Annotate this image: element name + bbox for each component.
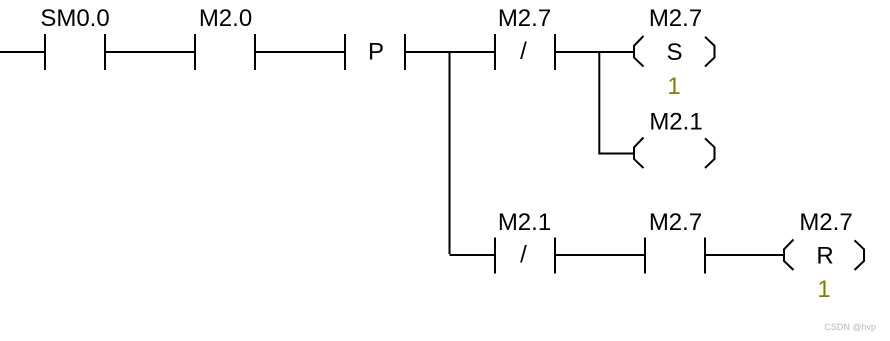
coil R M2.7 parentheses [784, 240, 794, 271]
svg-text:M2.1: M2.1 [649, 109, 702, 136]
contact M2.7 normally open [644, 238, 646, 274]
wire M2.0 to P [256, 51, 344, 53]
coil S M2.7 parentheses [634, 36, 644, 67]
wire M2.7 NO to coil R [706, 254, 784, 256]
wire branch to M2.1 coil [599, 153, 634, 154]
svg-text:M2.7: M2.7 [498, 5, 551, 32]
wire bottom rung from branch [450, 254, 495, 256]
contact M2.0 [194, 34, 196, 70]
wire M2.1 NC to M2.7 NO [556, 254, 644, 256]
svg-text:CSDN @hvp: CSDN @hvp [824, 322, 876, 332]
svg-text:/: / [520, 242, 527, 269]
svg-text:M2.7: M2.7 [649, 5, 702, 32]
svg-text:SM0.0: SM0.0 [40, 5, 109, 32]
svg-text:/: / [520, 38, 527, 65]
svg-text:M2.0: M2.0 [199, 5, 252, 32]
wire left rail to SM0.0 [0, 51, 44, 53]
svg-text:M2.7: M2.7 [799, 209, 852, 236]
svg-text:S: S [666, 39, 682, 66]
coil M2.1 parentheses [634, 138, 644, 169]
svg-text:P: P [368, 39, 384, 66]
wire vertical branch down from node after P [449, 52, 451, 254]
contact M2.7 normally closed [494, 34, 496, 70]
wire M2.7 NC to coil S [556, 51, 634, 53]
contact M2.1 normally closed [494, 238, 496, 274]
svg-text:M2.1: M2.1 [498, 209, 551, 236]
svg-text:M2.7: M2.7 [649, 209, 702, 236]
contact SM0.0 [44, 34, 46, 70]
svg-text:1: 1 [817, 276, 830, 303]
svg-text:R: R [816, 243, 833, 270]
wire P to M2.7 NC [406, 51, 494, 53]
wire SM0.0 to M2.0 [106, 51, 194, 53]
wire vertical branch down to M2.1 coil [598, 52, 600, 153]
contact P positive edge [344, 34, 346, 70]
svg-text:1: 1 [667, 73, 680, 100]
